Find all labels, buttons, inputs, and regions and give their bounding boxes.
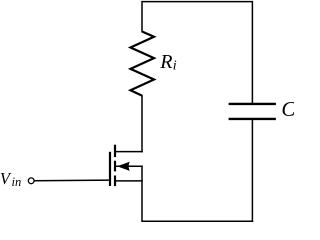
svg-text:R: R [159,51,172,73]
svg-text:C: C [281,97,294,121]
svg-text:in: in [12,175,22,189]
svg-text:V: V [0,169,12,188]
svg-text:i: i [173,59,177,74]
